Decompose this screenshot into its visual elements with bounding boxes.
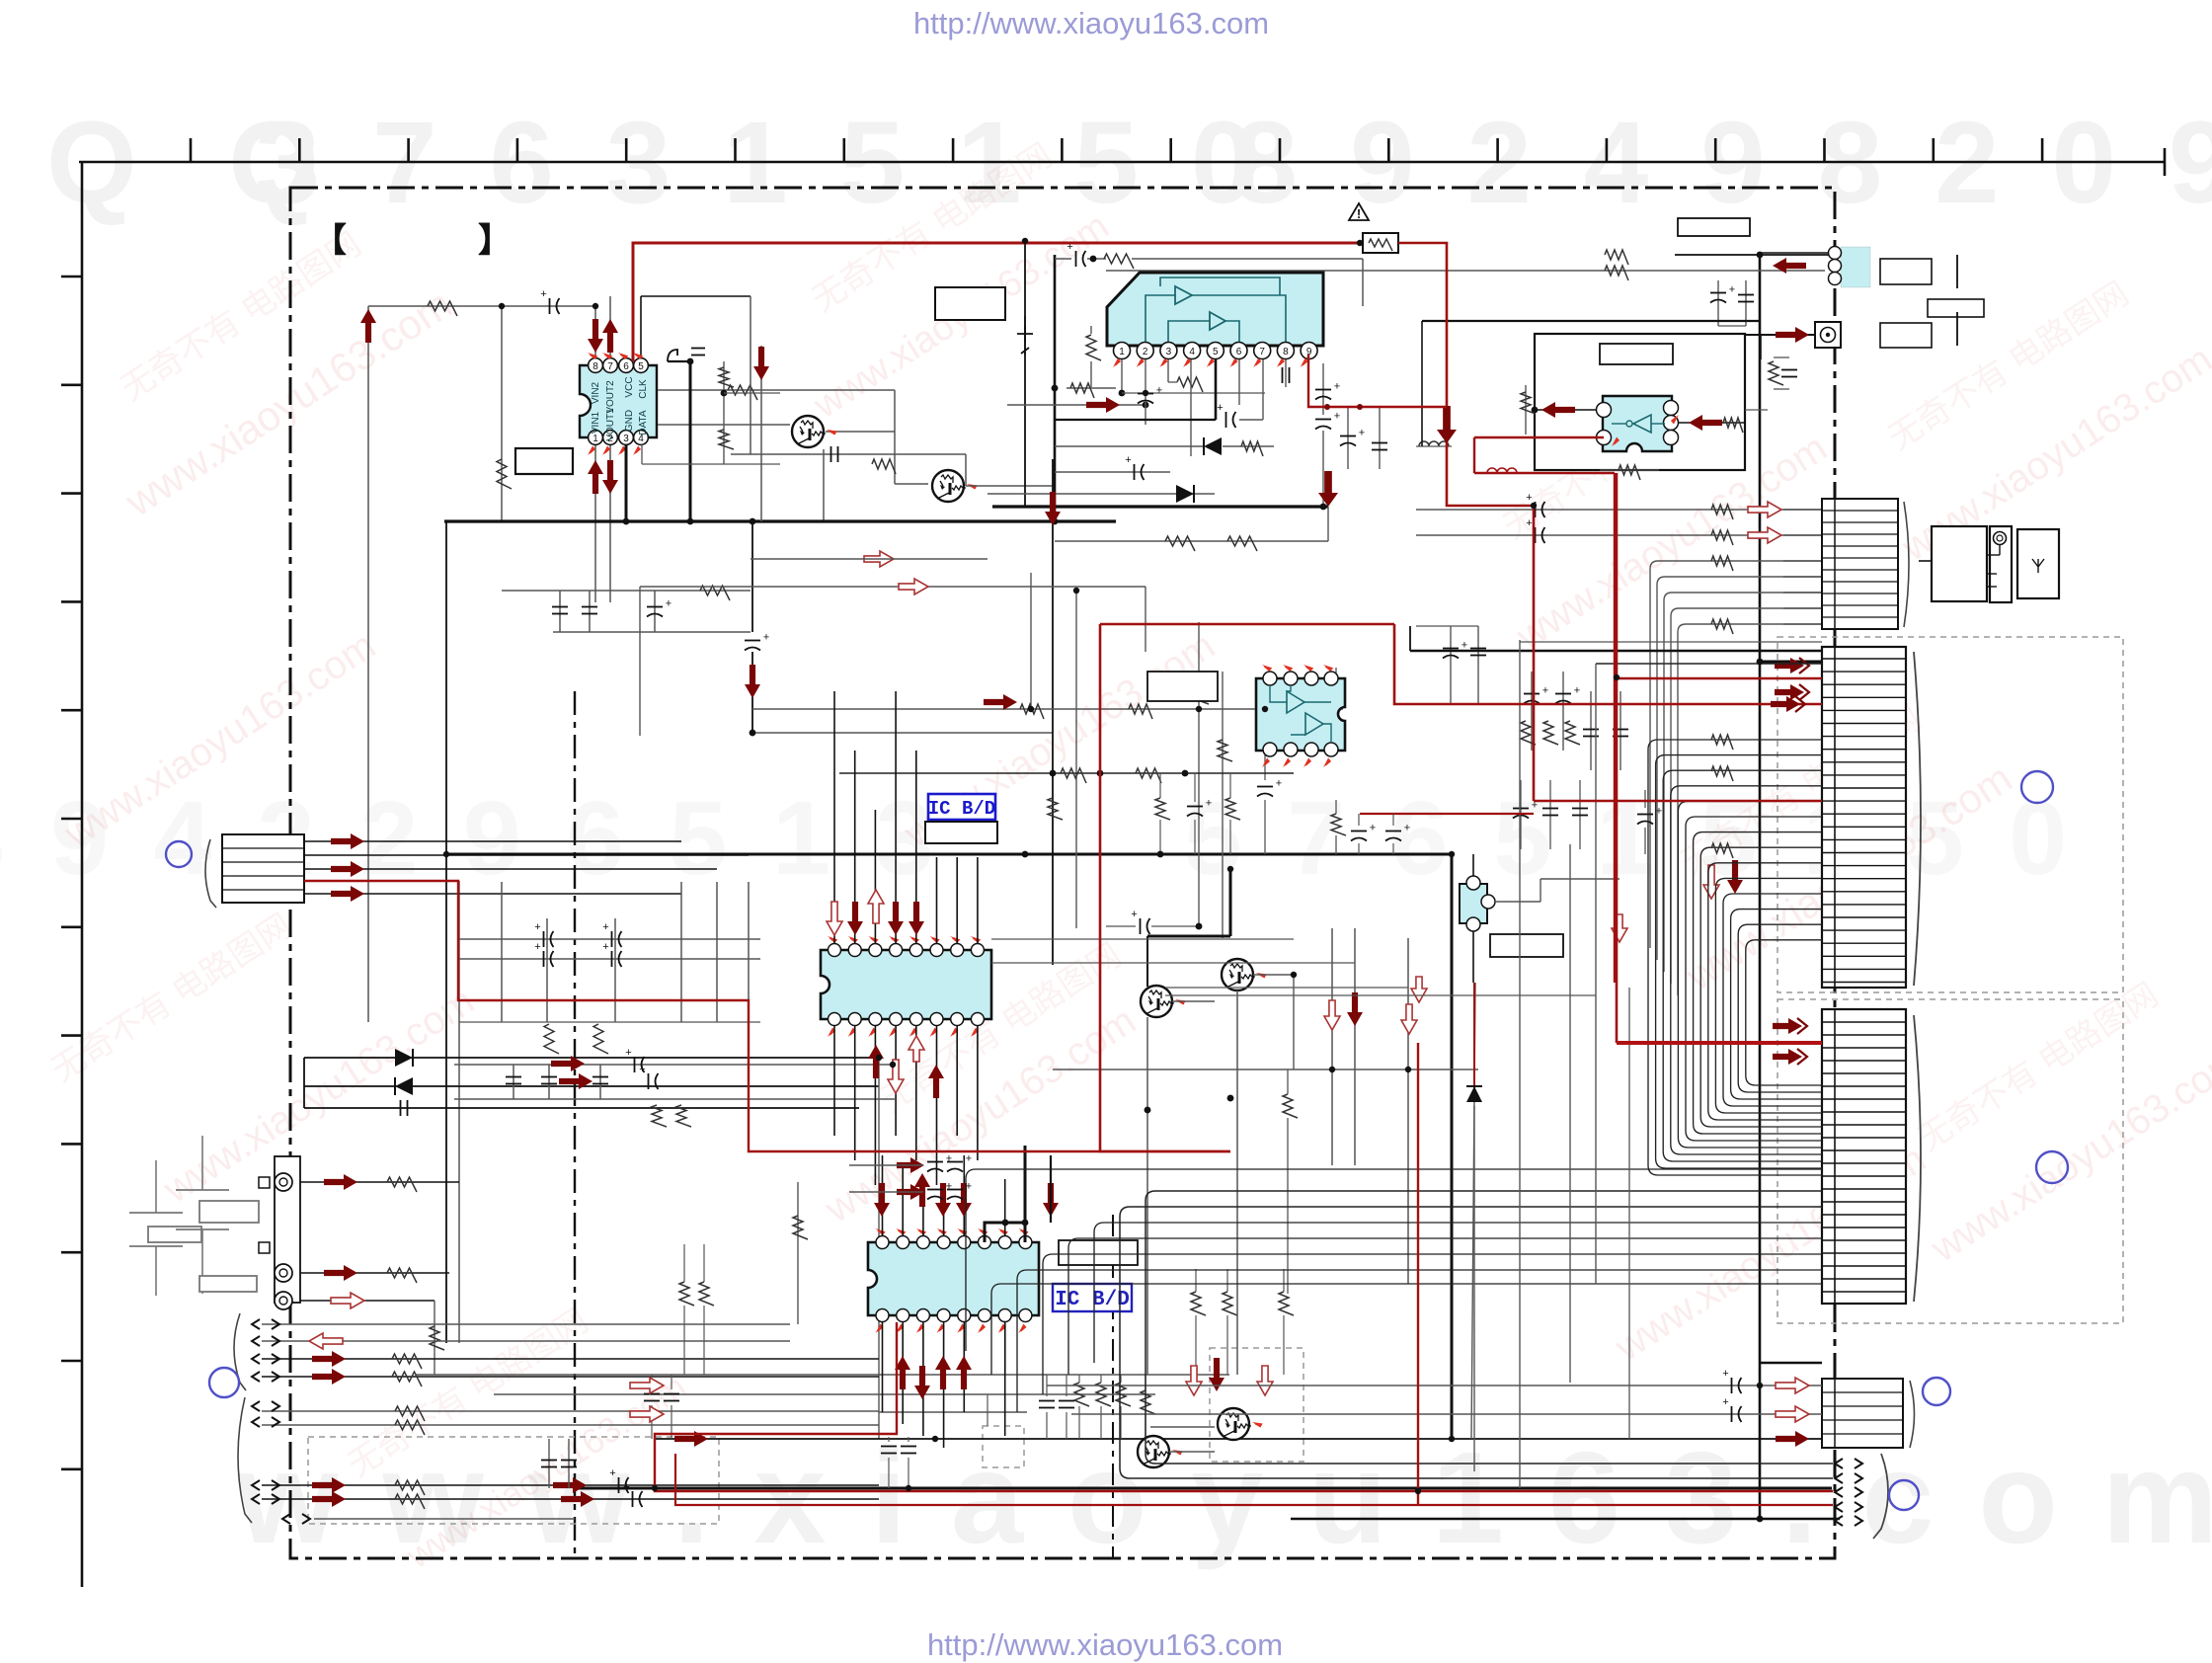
signal-arrow S22 bbox=[864, 551, 894, 567]
resistor R61 bbox=[719, 430, 734, 449]
resistor R1 bbox=[428, 301, 457, 316]
top right long black feeds bbox=[1410, 650, 1822, 653]
resistor R43 bbox=[1711, 530, 1733, 545]
resistor R20 bbox=[679, 1282, 694, 1306]
resistor R63 bbox=[1711, 735, 1733, 750]
red bottom pair to right chevrons bbox=[655, 1322, 1833, 1491]
signal-arrow S79 bbox=[984, 694, 1017, 710]
staple above IC B bbox=[985, 1223, 1025, 1242]
connector-pin C8 bbox=[252, 1354, 260, 1364]
capacitor C32 bbox=[1315, 389, 1331, 391]
signal-arrow S81 bbox=[1045, 492, 1061, 525]
svg-text:+: + bbox=[1359, 428, 1365, 439]
caps cluster row2 y1078-1113 bbox=[454, 1064, 895, 1066]
resistor R30 bbox=[1086, 335, 1101, 360]
RCA jack rows bbox=[300, 1181, 459, 1183]
signal-arrow S30 bbox=[1773, 258, 1806, 274]
signal-arrow S71 bbox=[1776, 1431, 1809, 1447]
svg-text:+: + bbox=[609, 1467, 615, 1479]
transistor T2 bbox=[932, 470, 964, 502]
capacitor C53 bbox=[1187, 806, 1203, 808]
signal-arrow S66 bbox=[1773, 1018, 1802, 1034]
svg-text:4: 4 bbox=[1189, 347, 1195, 357]
diode D4 bbox=[1176, 485, 1194, 503]
svg-text:】: 】 bbox=[478, 222, 512, 260]
capacitor C17 bbox=[618, 1477, 620, 1493]
signal-arrow S37 bbox=[888, 1060, 904, 1093]
signal-arrow S72 bbox=[674, 1431, 708, 1447]
svg-text:8: 8 bbox=[592, 361, 598, 372]
resistor R34 bbox=[1165, 536, 1195, 551]
resistor R26 bbox=[1223, 1292, 1237, 1315]
RCA jack block bbox=[275, 1156, 300, 1303]
capacitor C31 bbox=[1134, 464, 1136, 480]
connector-pin C10 bbox=[252, 1401, 260, 1411]
capacitor C22 bbox=[664, 1393, 679, 1395]
svg-text:+: + bbox=[966, 1153, 972, 1165]
capacitor C44 bbox=[1555, 693, 1571, 695]
svg-text:VIN1: VIN1 bbox=[591, 411, 601, 434]
signal-arrow S25 bbox=[602, 319, 618, 353]
resistor R64 bbox=[1711, 766, 1733, 781]
resistor R62 bbox=[1283, 1094, 1298, 1118]
transistor T6 bbox=[1138, 1436, 1169, 1467]
interior dash-dot line x1127 bbox=[1112, 1215, 1114, 1558]
resistor R5 bbox=[872, 459, 896, 474]
U-band: connector2 lower pins to connector3 pins bbox=[1648, 740, 1822, 1175]
signal-arrow S31 bbox=[847, 902, 863, 935]
capacitor C41 bbox=[1443, 648, 1459, 650]
resistor R27 bbox=[1279, 1292, 1294, 1315]
IC B: 16-pin DIP bbox=[868, 1242, 1039, 1315]
signal-arrow S75 bbox=[1437, 406, 1457, 443]
capacitor C25 bbox=[1039, 1400, 1055, 1402]
capacitor C36 bbox=[1710, 292, 1726, 294]
signal-arrow S78 bbox=[745, 665, 760, 698]
signal-arrow S32 bbox=[888, 902, 904, 935]
dots on bus bbox=[750, 518, 756, 525]
capacitor C8 bbox=[543, 931, 545, 947]
signal-arrow S6 bbox=[324, 1174, 357, 1190]
wire network: top-left block around IC1 bbox=[368, 305, 592, 307]
capacitor C34 bbox=[1340, 436, 1356, 437]
resistor R38 bbox=[1769, 361, 1783, 385]
svg-text:+: + bbox=[1206, 798, 1212, 810]
capacitor C26 bbox=[1059, 1400, 1074, 1402]
wire: right vertical bus x1782 bbox=[1759, 255, 1762, 1519]
mid-left rows: diodes and caps bbox=[304, 1057, 879, 1059]
signal-arrow S62 bbox=[1775, 658, 1804, 673]
resistor R47 bbox=[1543, 721, 1558, 745]
opamp IC (8-pin) mid bbox=[1256, 678, 1345, 751]
small boxes top right bbox=[1678, 218, 1750, 236]
signal-arrow S1 bbox=[331, 833, 364, 849]
capacitor C14 bbox=[592, 1076, 608, 1078]
svg-text:+: + bbox=[1526, 492, 1532, 504]
signal-arrow S44 bbox=[1043, 1183, 1059, 1217]
resistor R59 bbox=[1048, 798, 1063, 820]
extra long gray verticals right-middle bbox=[1471, 983, 1475, 1439]
svg-text:CLK: CLK bbox=[638, 379, 649, 399]
signal-arrow S7 bbox=[324, 1265, 357, 1281]
junction dots bbox=[499, 303, 505, 309]
signal-arrow S68 bbox=[1773, 1049, 1802, 1065]
resistor R14 bbox=[392, 1354, 422, 1369]
right side connectors bbox=[1822, 499, 1898, 629]
capacitor C19 bbox=[541, 1460, 557, 1462]
signal-arrow S43 bbox=[956, 1183, 972, 1217]
capacitor C62 bbox=[1385, 831, 1401, 832]
signal-arrow S20 bbox=[1748, 502, 1781, 517]
capacitor C27 bbox=[1075, 251, 1077, 267]
resistor R12 bbox=[430, 1326, 444, 1350]
resistor R16 bbox=[395, 1406, 425, 1421]
resistor R23 bbox=[1096, 1383, 1111, 1406]
svg-text:DATA: DATA bbox=[638, 410, 649, 436]
svg-text:+: + bbox=[1722, 1396, 1728, 1408]
inverter IC wires bbox=[1535, 409, 1604, 411]
resistor R46 bbox=[1521, 721, 1536, 745]
resistor R58 bbox=[1225, 798, 1240, 820]
capacitor C33 bbox=[1315, 419, 1331, 421]
capacitor C23 bbox=[881, 1446, 897, 1448]
signal-arrow S49 bbox=[897, 1157, 924, 1173]
svg-text:7: 7 bbox=[1259, 347, 1265, 357]
capacitor C58 bbox=[947, 1189, 963, 1191]
resistor R15 bbox=[392, 1372, 422, 1386]
signal-arrow S2 bbox=[331, 861, 364, 877]
resistor R4 bbox=[700, 586, 730, 600]
resistor R60 bbox=[719, 367, 734, 387]
svg-text:+: + bbox=[666, 598, 671, 610]
svg-text:+: + bbox=[1656, 806, 1662, 818]
shield box bbox=[1535, 334, 1745, 470]
capacitor C47 bbox=[1513, 808, 1529, 810]
svg-text:VIN2: VIN2 bbox=[591, 381, 601, 404]
resistor R37 bbox=[1605, 250, 1628, 265]
warning triangle + fuse on red rail bbox=[1349, 203, 1369, 220]
resistor R21 bbox=[699, 1282, 714, 1306]
capacitor C54 bbox=[691, 348, 705, 350]
signal-arrow S38 bbox=[908, 1036, 924, 1062]
capacitor C42 bbox=[1470, 648, 1486, 650]
dashed boxes bbox=[308, 1437, 719, 1524]
capacitor C16 bbox=[648, 1073, 650, 1089]
ruler top bbox=[79, 161, 2165, 164]
capacitor C39 bbox=[1535, 502, 1537, 517]
transistor T5 bbox=[1218, 1408, 1249, 1440]
svg-text:+: + bbox=[946, 1181, 952, 1193]
wire: bottom bus y1507 bbox=[575, 1487, 1832, 1490]
svg-text:+: + bbox=[1217, 402, 1223, 414]
connector-pin C6 bbox=[252, 1319, 260, 1329]
svg-text:+: + bbox=[623, 1481, 629, 1493]
signal-arrow S11 bbox=[312, 1369, 346, 1385]
wire: mid bus y865 bbox=[449, 853, 1452, 856]
connector-pin C5 bbox=[1835, 1516, 1843, 1526]
resistor R54 bbox=[1331, 814, 1346, 835]
IC B/D label 2 bbox=[1053, 1284, 1132, 1311]
svg-text:+: + bbox=[534, 941, 540, 953]
signal-arrow S39 bbox=[928, 1065, 944, 1098]
resistor R13 bbox=[793, 1216, 808, 1239]
resistor R28 bbox=[1141, 1390, 1155, 1414]
signal-arrow S36 bbox=[868, 1045, 884, 1078]
signal-arrow S29 bbox=[753, 347, 769, 380]
svg-text:6: 6 bbox=[1236, 347, 1242, 357]
capacitor C15 bbox=[634, 1057, 636, 1072]
resistor R48 bbox=[1565, 721, 1580, 745]
svg-text:+: + bbox=[763, 632, 769, 644]
resistor R9 bbox=[676, 1105, 691, 1127]
capacitor C45 bbox=[1583, 729, 1599, 731]
horizontals feeding ICA area from right bbox=[991, 938, 1294, 940]
resistor R29 bbox=[1104, 254, 1134, 269]
resistor R8 bbox=[652, 1105, 667, 1127]
resistor R32 bbox=[1177, 377, 1203, 392]
power IC pin wires below bbox=[1121, 354, 1123, 393]
capacitor C2 bbox=[830, 446, 832, 462]
connector-pin C2 bbox=[1835, 1473, 1843, 1483]
signal-arrow S42 bbox=[935, 1183, 951, 1217]
capacitor C5 bbox=[647, 606, 663, 608]
svg-text:+: + bbox=[534, 921, 540, 933]
capacitor C40 bbox=[1535, 527, 1537, 543]
capacitor C60 bbox=[1731, 1406, 1733, 1422]
top middle power amp section wires bbox=[1024, 241, 1026, 507]
transistor T1 bbox=[792, 416, 824, 447]
diode D3 bbox=[1204, 437, 1222, 455]
bottom-left chevron wires bbox=[262, 1323, 790, 1325]
resistor R53 bbox=[1331, 680, 1346, 702]
resistor R57 bbox=[1155, 798, 1170, 820]
signal-arrow S69 bbox=[1776, 1378, 1809, 1393]
svg-text:+: + bbox=[625, 1047, 631, 1059]
caps cluster x520-770 bbox=[459, 938, 760, 940]
signal-arrow S26 bbox=[588, 460, 603, 494]
svg-text:!: ! bbox=[1357, 206, 1361, 221]
vertical wires feeding IC B bbox=[882, 1155, 884, 1236]
signal-arrow S47 bbox=[935, 1356, 951, 1389]
svg-text:3: 3 bbox=[623, 434, 629, 444]
capacitor C24 bbox=[901, 1446, 916, 1448]
red mid loop bbox=[1100, 624, 1394, 1151]
svg-text:+: + bbox=[1542, 685, 1548, 697]
svg-text:VCC: VCC bbox=[624, 376, 635, 397]
resistor R36 bbox=[1605, 266, 1628, 280]
top right tuner area bbox=[1675, 254, 1835, 256]
svg-text:http://www.xiaoyu163.com: http://www.xiaoyu163.com bbox=[913, 6, 1269, 40]
capacitor C52 bbox=[1140, 918, 1142, 934]
signal-arrow S41 bbox=[914, 1173, 930, 1207]
svg-text:IC B/D: IC B/D bbox=[928, 798, 995, 820]
svg-text:+: + bbox=[1334, 411, 1340, 423]
connector-pin C1 bbox=[1835, 1459, 1843, 1468]
inductor I1 bbox=[1419, 441, 1449, 446]
signal-arrow S16 bbox=[1086, 397, 1120, 413]
connector CN upper bbox=[1822, 647, 1906, 988]
resistor R6 bbox=[544, 1024, 559, 1054]
capacitor C38 bbox=[1781, 369, 1797, 371]
capacitor C59 bbox=[1731, 1378, 1733, 1393]
wire y783 with resistors bbox=[839, 772, 1294, 774]
capacitor C11 bbox=[611, 951, 613, 967]
capacitor C9 bbox=[543, 951, 545, 967]
small 4-pin IC mid right bbox=[1460, 884, 1487, 923]
signal-arrow S70 bbox=[1776, 1406, 1809, 1422]
resistor R25 bbox=[1191, 1292, 1206, 1315]
svg-text:+: + bbox=[639, 1064, 645, 1075]
capacitor C46 bbox=[1613, 729, 1628, 731]
signal-arrow S5 bbox=[559, 1073, 592, 1089]
capacitor C61 bbox=[1351, 831, 1367, 832]
svg-text:+: + bbox=[966, 1181, 972, 1193]
signal-arrow S9 bbox=[309, 1333, 343, 1349]
connector-pin C9 bbox=[252, 1372, 260, 1382]
resistor R65 bbox=[1711, 843, 1733, 858]
signal-arrow S46 bbox=[914, 1366, 930, 1399]
capacitor C13 bbox=[541, 1076, 557, 1078]
capacitor C55 bbox=[927, 1161, 943, 1163]
svg-text:3: 3 bbox=[1166, 347, 1172, 357]
capacitor C1 bbox=[549, 298, 551, 314]
connector-pin C12 bbox=[252, 1480, 260, 1490]
signal-arrow S51 bbox=[1324, 1000, 1340, 1030]
wire: GND bus y528 bbox=[444, 519, 1116, 522]
signal-arrow S50 bbox=[897, 1184, 924, 1200]
svg-text:+: + bbox=[1722, 1368, 1728, 1380]
resistor R55 bbox=[1061, 768, 1086, 783]
capacitor C48 bbox=[1542, 808, 1558, 810]
right mid caps cluster bbox=[1450, 626, 1452, 703]
resistor R2 bbox=[497, 459, 512, 489]
resistor R24 bbox=[1116, 1383, 1131, 1406]
resistor R18 bbox=[395, 1480, 425, 1495]
signal-arrow S59 bbox=[1727, 860, 1743, 894]
resistor R17 bbox=[395, 1420, 425, 1435]
signal-arrow S35 bbox=[868, 890, 884, 923]
red left input branch bbox=[304, 881, 1230, 1151]
svg-text:+: + bbox=[602, 921, 608, 933]
signal-arrow S4 bbox=[551, 1056, 585, 1071]
red top rail bbox=[633, 243, 1369, 361]
signal-arrow S15 bbox=[561, 1491, 594, 1507]
wire: power bus y513 bbox=[992, 505, 1328, 508]
antenna jack bbox=[1815, 322, 1841, 348]
capacitor C10 bbox=[611, 931, 613, 947]
svg-text:8: 8 bbox=[1283, 347, 1289, 357]
capacitor C30 bbox=[1225, 412, 1227, 428]
svg-text:http://www.xiaoyu163.com: http://www.xiaoyu163.com bbox=[927, 1627, 1283, 1662]
signal-arrow S60 bbox=[1612, 914, 1627, 942]
svg-text:+: + bbox=[1574, 685, 1580, 697]
capacitor C28 bbox=[1138, 393, 1153, 395]
svg-text:5: 5 bbox=[1213, 347, 1219, 357]
resistor R42 bbox=[1711, 505, 1733, 519]
connector3 lower pins going to bottom chevron rows bbox=[1145, 1191, 1833, 1464]
svg-text:+: + bbox=[540, 288, 546, 300]
svg-text:1: 1 bbox=[1119, 347, 1125, 357]
signal-arrow S21 bbox=[1748, 527, 1781, 543]
resistor R22 bbox=[1074, 1383, 1089, 1406]
interior dash-dot line x582 bbox=[574, 691, 576, 1558]
capacitor C51 bbox=[1257, 786, 1273, 788]
resistor R39 bbox=[1723, 418, 1743, 433]
diode D5 bbox=[1466, 1086, 1482, 1102]
signal-arrow S80 bbox=[1318, 471, 1338, 507]
signal-arrow S10 bbox=[312, 1351, 346, 1367]
resistor R33 bbox=[1241, 441, 1263, 456]
svg-text:+: + bbox=[1276, 778, 1282, 790]
resistor R3 bbox=[728, 385, 757, 400]
signal-arrow S14 bbox=[553, 1477, 587, 1493]
capacitor C18 bbox=[632, 1491, 634, 1507]
wire: bottom bus y1538 bbox=[1291, 1518, 1840, 1521]
capacitor C21 bbox=[644, 1393, 660, 1395]
signal-arrow S24 bbox=[588, 319, 603, 353]
resistor R45 bbox=[1711, 619, 1733, 634]
resistor R50 bbox=[1129, 704, 1152, 719]
signal-arrow S28 bbox=[360, 309, 376, 343]
signal-arrow S3 bbox=[331, 886, 364, 902]
signal-arrow S55 bbox=[1186, 1366, 1202, 1395]
signal-arrow S58 bbox=[1703, 865, 1719, 899]
svg-text:+: + bbox=[1370, 823, 1376, 834]
left connector 1 bbox=[222, 834, 304, 903]
svg-text:+: + bbox=[1156, 385, 1162, 397]
resistor R7 bbox=[593, 1024, 608, 1054]
resistor R35 bbox=[1227, 536, 1257, 551]
vertical wire bands around IC A bbox=[833, 691, 835, 943]
resistor R66 bbox=[1369, 239, 1392, 251]
svg-text:+: + bbox=[1404, 823, 1410, 834]
signal-arrow S17 bbox=[1776, 327, 1809, 343]
capacitor C29 bbox=[1282, 367, 1284, 383]
signal-arrow S12 bbox=[312, 1477, 346, 1493]
red inverter branch bbox=[1474, 437, 1615, 983]
svg-text:6: 6 bbox=[623, 361, 629, 372]
signal-arrow S53 bbox=[1401, 1004, 1417, 1034]
IC A: 16-pin DIP bbox=[821, 950, 991, 1019]
signal-arrow S8 bbox=[331, 1293, 364, 1308]
svg-text:+: + bbox=[1729, 284, 1735, 296]
resistor R41 bbox=[1619, 465, 1640, 480]
svg-text:+: + bbox=[1125, 454, 1131, 466]
resistor R10 bbox=[387, 1177, 417, 1192]
connector-pin C11 bbox=[252, 1417, 260, 1427]
signal-arrow S73 bbox=[630, 1378, 664, 1393]
capacitor C6 bbox=[745, 640, 760, 642]
svg-text:GND: GND bbox=[624, 410, 635, 432]
inverter IC tuner bbox=[1603, 396, 1672, 451]
capacitor C20 bbox=[561, 1460, 577, 1462]
resistor R44 bbox=[1711, 556, 1733, 571]
signal-arrow S34 bbox=[827, 902, 842, 935]
signal-arrow S19 bbox=[1689, 415, 1722, 431]
capacitor C35 bbox=[1372, 442, 1387, 444]
bottom mid horizontals bbox=[415, 1374, 1229, 1376]
signal-arrow S74 bbox=[630, 1406, 664, 1422]
signal-arrow S18 bbox=[1541, 402, 1575, 418]
resistor R11 bbox=[387, 1268, 417, 1283]
svg-text:IC B/D: IC B/D bbox=[1055, 1289, 1130, 1311]
resistor R40 bbox=[1521, 392, 1536, 414]
svg-text:+: + bbox=[1526, 517, 1532, 529]
svg-text:1: 1 bbox=[592, 434, 598, 444]
signal-arrow S23 bbox=[899, 579, 928, 594]
capacitor C4 bbox=[582, 606, 597, 608]
capacitor C49 bbox=[1572, 808, 1588, 810]
